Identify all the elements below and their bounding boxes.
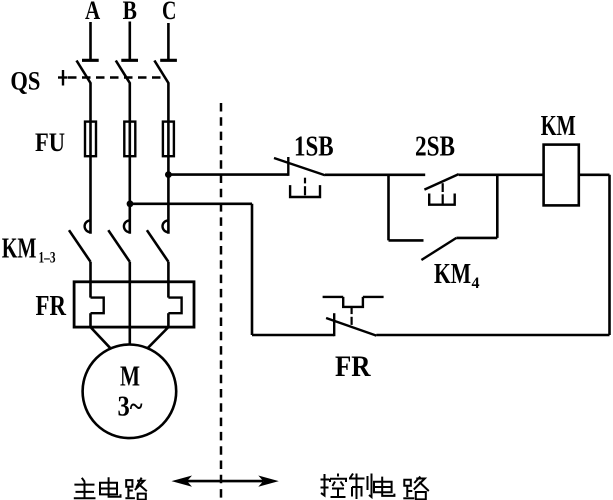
contactor main contact KM3 (pole C) bbox=[147, 220, 169, 261]
dashed separator line bbox=[220, 103, 223, 500]
svg-text:KM: KM bbox=[541, 111, 576, 142]
terminal bar B bbox=[121, 59, 138, 62]
FR heater element pole C bbox=[168, 282, 181, 327]
控 bbox=[321, 474, 325, 496]
svg-text:FR: FR bbox=[335, 350, 371, 383]
wire B: KM contact to FR box bbox=[129, 262, 132, 283]
double-headed arrow bbox=[172, 476, 279, 487]
wire: bottom right run bbox=[376, 334, 609, 337]
label 主电路 (main circuit) bbox=[74, 477, 147, 499]
fuse FU pole C bbox=[163, 122, 174, 157]
svg-text:A: A bbox=[85, 0, 100, 25]
terminal bar A bbox=[82, 59, 99, 62]
电 bbox=[100, 483, 117, 495]
wire: 2SB to coil bbox=[459, 174, 544, 177]
fuse FU pole A bbox=[85, 122, 96, 157]
wire: coil to right drop bbox=[579, 174, 610, 177]
svg-text:KM: KM bbox=[434, 259, 471, 290]
QS handle bar bbox=[58, 76, 68, 78]
wire C: fuse to KM contact bbox=[167, 156, 170, 234]
wire phase C lead-in bbox=[167, 23, 170, 59]
disconnect switch QS blade pole A bbox=[77, 61, 91, 84]
label 控制电路 (control circuit) bbox=[321, 474, 429, 500]
wire phase B lead-in bbox=[129, 22, 132, 60]
motor lead A bbox=[91, 327, 111, 348]
路 bbox=[404, 480, 411, 486]
contactor main contact KM1 (pole A) bbox=[69, 220, 91, 261]
svg-text:QS: QS bbox=[10, 66, 40, 95]
svg-text:C: C bbox=[162, 0, 176, 25]
contactor main contact KM2 (pole B) bbox=[108, 220, 130, 261]
svg-text:1–3: 1–3 bbox=[39, 250, 56, 267]
wire B: fuse to KM contact bbox=[129, 156, 132, 234]
电 bbox=[374, 482, 392, 493]
svg-text:1SB: 1SB bbox=[294, 131, 334, 162]
svg-text:FU: FU bbox=[35, 128, 65, 157]
auxiliary contact KM4 branch bbox=[389, 175, 498, 260]
wire A: fuse to KM contact bbox=[89, 156, 92, 234]
node: control tap on phase B bbox=[127, 200, 134, 207]
disconnect switch QS blade pole B bbox=[116, 61, 130, 84]
wire C: KM contact to FR box bbox=[167, 262, 170, 283]
pushbutton 1SB (NC stop button) bbox=[274, 157, 325, 197]
QS handle tick bbox=[62, 70, 64, 86]
svg-text:4: 4 bbox=[472, 275, 480, 292]
QS linkage dashed line bbox=[68, 76, 163, 78]
主 bbox=[82, 478, 85, 482]
wire: phase B tap to right bbox=[130, 203, 252, 206]
wire phase A lead-in bbox=[89, 22, 92, 59]
FR heater element pole A bbox=[91, 282, 104, 327]
wire C: QS to fuse bbox=[167, 83, 170, 123]
wire: control right drop bbox=[608, 175, 611, 335]
node: control tap on phase C bbox=[165, 171, 172, 178]
FR NC contact (thermal trip) bbox=[323, 297, 384, 336]
wire: phase C tap to 1SB bbox=[168, 173, 288, 176]
fuse FU pole B bbox=[124, 122, 135, 157]
motor lead C bbox=[148, 327, 168, 348]
pushbutton 2SB (NO start button) bbox=[424, 174, 458, 205]
label KM4 bbox=[434, 259, 480, 292]
svg-text:B: B bbox=[123, 0, 137, 25]
terminal bar C bbox=[160, 59, 177, 62]
svg-text:M: M bbox=[120, 361, 140, 393]
motor M 3~ bbox=[83, 345, 177, 439]
disconnect switch QS blade pole C bbox=[154, 61, 168, 84]
wire A: QS to fuse bbox=[89, 83, 92, 123]
制 bbox=[350, 474, 353, 479]
路 bbox=[126, 480, 132, 487]
wire: 1SB to 2SB branch bbox=[325, 174, 425, 177]
wire: control left drop bbox=[251, 204, 254, 335]
svg-text:FR: FR bbox=[36, 291, 67, 322]
wire A: KM contact to FR box bbox=[89, 262, 92, 283]
svg-text:2SB: 2SB bbox=[415, 131, 455, 162]
motor lead B bbox=[129, 327, 132, 344]
FR pole B straight wire bbox=[129, 282, 132, 327]
svg-text:KM: KM bbox=[2, 233, 37, 264]
label KM1-3 bbox=[2, 233, 56, 266]
wire B: QS to fuse bbox=[129, 83, 132, 123]
wire: bottom left run bbox=[252, 334, 334, 337]
contactor coil KM bbox=[544, 145, 579, 206]
svg-text:3~: 3~ bbox=[118, 392, 143, 423]
thermal relay FR box bbox=[74, 282, 194, 327]
